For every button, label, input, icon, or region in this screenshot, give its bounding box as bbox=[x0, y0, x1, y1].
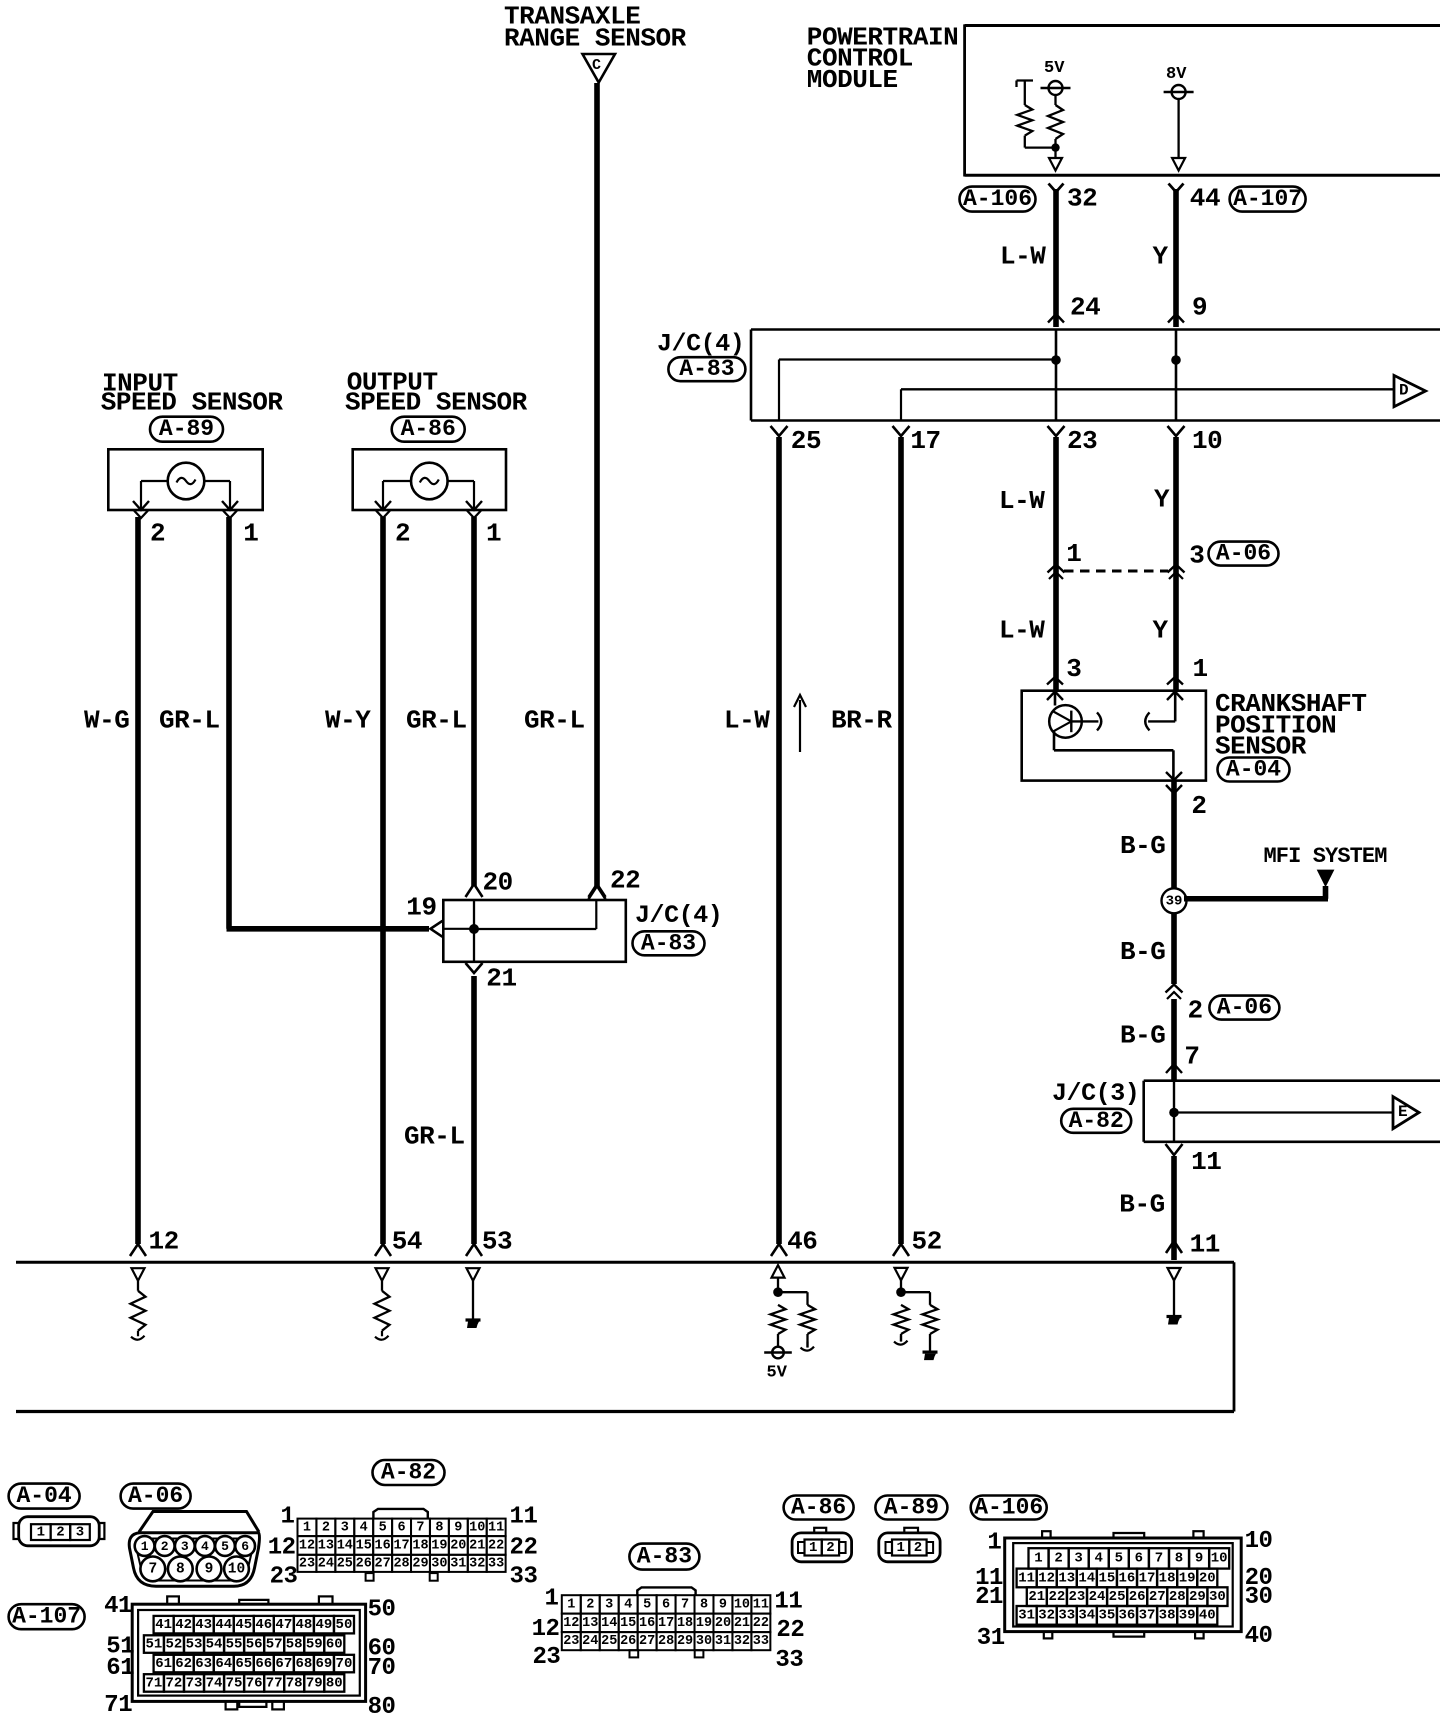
svg-text:16: 16 bbox=[639, 1616, 655, 1631]
svg-text:69: 69 bbox=[316, 1656, 333, 1672]
svg-text:5V: 5V bbox=[767, 1363, 788, 1382]
svg-text:4: 4 bbox=[201, 1539, 209, 1554]
svg-text:RANGE SENSOR: RANGE SENSOR bbox=[504, 24, 687, 54]
svg-text:25: 25 bbox=[601, 1634, 617, 1649]
svg-text:A-86: A-86 bbox=[401, 416, 456, 442]
svg-text:2: 2 bbox=[586, 1597, 594, 1612]
svg-text:Y: Y bbox=[1153, 616, 1169, 646]
svg-text:23: 23 bbox=[1069, 1589, 1086, 1605]
svg-text:1: 1 bbox=[303, 1520, 311, 1535]
svg-text:31: 31 bbox=[1018, 1608, 1035, 1624]
svg-text:3: 3 bbox=[341, 1520, 349, 1535]
svg-text:10: 10 bbox=[1192, 426, 1222, 456]
svg-text:B-G: B-G bbox=[1120, 831, 1165, 861]
svg-text:J/C(4): J/C(4) bbox=[635, 901, 722, 930]
svg-text:GR-L: GR-L bbox=[406, 706, 467, 736]
svg-text:77: 77 bbox=[266, 1675, 283, 1691]
svg-text:10: 10 bbox=[1245, 1528, 1273, 1555]
svg-text:30: 30 bbox=[1245, 1584, 1273, 1611]
svg-text:50: 50 bbox=[368, 1597, 396, 1624]
svg-text:20: 20 bbox=[483, 868, 513, 898]
svg-text:7: 7 bbox=[1184, 1041, 1199, 1071]
svg-text:28: 28 bbox=[1169, 1589, 1186, 1605]
svg-text:51: 51 bbox=[145, 1637, 162, 1653]
svg-text:23: 23 bbox=[1067, 426, 1097, 456]
svg-text:3: 3 bbox=[605, 1597, 613, 1612]
svg-text:54: 54 bbox=[206, 1637, 223, 1653]
svg-text:6: 6 bbox=[398, 1520, 406, 1535]
svg-text:33: 33 bbox=[753, 1634, 769, 1649]
svg-text:12: 12 bbox=[299, 1538, 315, 1553]
svg-text:20: 20 bbox=[715, 1616, 731, 1631]
svg-text:8: 8 bbox=[700, 1597, 708, 1612]
svg-text:18: 18 bbox=[412, 1538, 428, 1553]
svg-text:L-W: L-W bbox=[999, 616, 1045, 646]
svg-text:SPEED SENSOR: SPEED SENSOR bbox=[345, 387, 528, 417]
svg-text:46: 46 bbox=[787, 1227, 817, 1257]
svg-text:2: 2 bbox=[322, 1520, 330, 1535]
svg-text:80: 80 bbox=[326, 1675, 343, 1691]
svg-text:3: 3 bbox=[1066, 654, 1081, 684]
svg-text:53: 53 bbox=[482, 1227, 512, 1257]
svg-text:A-107: A-107 bbox=[1233, 186, 1302, 212]
svg-text:1: 1 bbox=[896, 1540, 904, 1556]
svg-text:14: 14 bbox=[1078, 1570, 1095, 1586]
svg-text:33: 33 bbox=[488, 1556, 504, 1571]
svg-text:33: 33 bbox=[775, 1647, 803, 1674]
svg-text:9: 9 bbox=[454, 1520, 462, 1535]
svg-text:9: 9 bbox=[1195, 1551, 1203, 1567]
svg-text:40: 40 bbox=[1199, 1608, 1216, 1624]
svg-text:2: 2 bbox=[56, 1524, 64, 1540]
svg-text:2: 2 bbox=[1188, 996, 1203, 1026]
svg-text:Y: Y bbox=[1153, 242, 1169, 272]
svg-text:67: 67 bbox=[275, 1656, 292, 1672]
svg-text:Y: Y bbox=[1154, 485, 1170, 515]
svg-text:5: 5 bbox=[643, 1597, 651, 1612]
svg-text:64: 64 bbox=[215, 1656, 232, 1672]
svg-text:28: 28 bbox=[393, 1556, 409, 1571]
svg-text:68: 68 bbox=[295, 1656, 312, 1672]
svg-text:L-W: L-W bbox=[1000, 242, 1046, 272]
svg-text:41: 41 bbox=[104, 1593, 132, 1620]
svg-text:40: 40 bbox=[1245, 1623, 1273, 1650]
svg-text:32: 32 bbox=[1038, 1608, 1055, 1624]
svg-text:C: C bbox=[592, 57, 601, 74]
svg-text:10: 10 bbox=[469, 1520, 485, 1535]
svg-text:16: 16 bbox=[1119, 1570, 1136, 1586]
svg-text:6: 6 bbox=[662, 1597, 670, 1612]
svg-text:18: 18 bbox=[1159, 1570, 1176, 1586]
svg-text:11: 11 bbox=[1191, 1147, 1221, 1177]
svg-text:29: 29 bbox=[677, 1634, 693, 1649]
svg-text:15: 15 bbox=[620, 1616, 636, 1631]
svg-text:24: 24 bbox=[1070, 293, 1100, 323]
svg-text:44: 44 bbox=[215, 1617, 232, 1633]
svg-text:1: 1 bbox=[486, 518, 501, 548]
svg-text:3: 3 bbox=[1189, 541, 1204, 571]
svg-text:47: 47 bbox=[275, 1617, 292, 1633]
svg-text:39: 39 bbox=[1179, 1608, 1196, 1624]
svg-text:A-89: A-89 bbox=[159, 416, 214, 442]
svg-text:62: 62 bbox=[175, 1656, 192, 1672]
svg-text:19: 19 bbox=[406, 893, 436, 923]
svg-text:19: 19 bbox=[696, 1616, 712, 1631]
svg-text:29: 29 bbox=[412, 1556, 428, 1571]
svg-text:A-83: A-83 bbox=[679, 356, 734, 382]
svg-text:8: 8 bbox=[435, 1520, 443, 1535]
svg-text:GR-L: GR-L bbox=[404, 1122, 465, 1152]
svg-text:52: 52 bbox=[166, 1637, 183, 1653]
svg-text:7: 7 bbox=[416, 1520, 424, 1535]
svg-text:A-82: A-82 bbox=[1069, 1108, 1124, 1134]
svg-text:36: 36 bbox=[1119, 1608, 1136, 1624]
svg-text:54: 54 bbox=[392, 1227, 422, 1257]
svg-text:12: 12 bbox=[1038, 1570, 1055, 1586]
svg-text:79: 79 bbox=[306, 1675, 323, 1691]
svg-text:1: 1 bbox=[1193, 654, 1208, 684]
svg-text:48: 48 bbox=[295, 1617, 312, 1633]
svg-text:1: 1 bbox=[1034, 1551, 1042, 1567]
svg-text:J/C(4): J/C(4) bbox=[657, 330, 744, 359]
svg-text:3: 3 bbox=[181, 1539, 189, 1554]
svg-text:7: 7 bbox=[1155, 1551, 1163, 1567]
svg-text:A-89: A-89 bbox=[884, 1495, 939, 1521]
svg-text:30: 30 bbox=[431, 1556, 447, 1571]
svg-text:24: 24 bbox=[582, 1634, 598, 1649]
svg-text:12: 12 bbox=[268, 1534, 296, 1561]
svg-text:12: 12 bbox=[149, 1227, 179, 1257]
svg-text:2: 2 bbox=[1191, 791, 1206, 821]
svg-text:63: 63 bbox=[195, 1656, 212, 1672]
svg-text:21: 21 bbox=[734, 1616, 750, 1631]
svg-text:41: 41 bbox=[155, 1617, 172, 1633]
svg-text:W-G: W-G bbox=[84, 706, 129, 736]
svg-text:5: 5 bbox=[1115, 1551, 1123, 1567]
svg-text:15: 15 bbox=[1098, 1570, 1115, 1586]
svg-text:71: 71 bbox=[104, 1692, 132, 1719]
svg-text:26: 26 bbox=[620, 1634, 636, 1649]
svg-text:B-G: B-G bbox=[1119, 1190, 1164, 1220]
svg-text:59: 59 bbox=[306, 1637, 323, 1653]
svg-text:23: 23 bbox=[299, 1556, 315, 1571]
svg-text:12: 12 bbox=[532, 1616, 560, 1643]
svg-text:22: 22 bbox=[776, 1617, 804, 1644]
svg-text:A-04: A-04 bbox=[16, 1483, 71, 1509]
svg-text:5V: 5V bbox=[1044, 59, 1065, 78]
svg-text:44: 44 bbox=[1190, 183, 1220, 213]
svg-text:11: 11 bbox=[488, 1520, 504, 1535]
svg-text:21: 21 bbox=[469, 1538, 485, 1553]
svg-text:1: 1 bbox=[545, 1586, 559, 1613]
svg-text:14: 14 bbox=[337, 1538, 353, 1553]
svg-text:32: 32 bbox=[734, 1634, 750, 1649]
svg-text:52: 52 bbox=[912, 1227, 942, 1257]
svg-text:22: 22 bbox=[610, 866, 640, 896]
svg-text:L-W: L-W bbox=[724, 706, 770, 736]
svg-text:20: 20 bbox=[450, 1538, 466, 1553]
svg-text:6: 6 bbox=[1135, 1551, 1143, 1567]
svg-text:42: 42 bbox=[175, 1617, 192, 1633]
svg-text:61: 61 bbox=[106, 1655, 134, 1682]
svg-text:4: 4 bbox=[624, 1597, 632, 1612]
svg-text:31: 31 bbox=[977, 1625, 1005, 1652]
svg-text:17: 17 bbox=[658, 1616, 674, 1631]
svg-text:20: 20 bbox=[1199, 1570, 1216, 1586]
svg-text:43: 43 bbox=[195, 1617, 212, 1633]
svg-text:7: 7 bbox=[681, 1597, 689, 1612]
svg-text:A-107: A-107 bbox=[12, 1604, 81, 1630]
svg-text:75: 75 bbox=[226, 1675, 243, 1691]
svg-text:22: 22 bbox=[1048, 1589, 1065, 1605]
svg-text:32: 32 bbox=[469, 1556, 485, 1571]
svg-text:GR-L: GR-L bbox=[159, 706, 220, 736]
svg-text:9: 9 bbox=[719, 1597, 727, 1612]
svg-text:A-06: A-06 bbox=[1216, 541, 1271, 567]
svg-text:B-G: B-G bbox=[1120, 1021, 1165, 1051]
svg-text:A-82: A-82 bbox=[381, 1460, 436, 1486]
svg-text:D: D bbox=[1399, 382, 1409, 400]
svg-text:13: 13 bbox=[318, 1538, 334, 1553]
svg-text:4: 4 bbox=[360, 1520, 368, 1535]
svg-text:72: 72 bbox=[166, 1675, 183, 1691]
svg-text:8V: 8V bbox=[1166, 65, 1187, 84]
svg-text:21: 21 bbox=[1028, 1589, 1045, 1605]
svg-text:53: 53 bbox=[186, 1637, 203, 1653]
svg-text:21: 21 bbox=[975, 1584, 1003, 1611]
svg-text:BR-R: BR-R bbox=[831, 706, 892, 736]
svg-text:25: 25 bbox=[337, 1556, 353, 1571]
svg-text:23: 23 bbox=[270, 1564, 298, 1591]
svg-text:L-W: L-W bbox=[999, 486, 1045, 516]
svg-text:33: 33 bbox=[510, 1564, 538, 1591]
svg-text:11: 11 bbox=[510, 1503, 538, 1530]
svg-text:B-G: B-G bbox=[1120, 937, 1165, 967]
svg-text:19: 19 bbox=[1179, 1570, 1196, 1586]
svg-text:1: 1 bbox=[243, 518, 258, 548]
svg-text:45: 45 bbox=[235, 1617, 252, 1633]
svg-text:A-86: A-86 bbox=[791, 1495, 846, 1521]
svg-text:10: 10 bbox=[228, 1561, 245, 1577]
svg-text:J/C(3): J/C(3) bbox=[1052, 1079, 1139, 1108]
svg-text:74: 74 bbox=[206, 1675, 223, 1691]
svg-text:56: 56 bbox=[246, 1637, 263, 1653]
svg-text:32: 32 bbox=[1067, 183, 1097, 213]
svg-text:12: 12 bbox=[563, 1616, 579, 1631]
svg-text:26: 26 bbox=[356, 1556, 372, 1571]
svg-text:37: 37 bbox=[1139, 1608, 1156, 1624]
svg-text:8: 8 bbox=[176, 1561, 185, 1577]
svg-text:13: 13 bbox=[582, 1616, 598, 1631]
svg-text:A-83: A-83 bbox=[637, 1544, 692, 1570]
svg-text:22: 22 bbox=[488, 1538, 504, 1553]
svg-text:46: 46 bbox=[255, 1617, 272, 1633]
svg-text:50: 50 bbox=[336, 1617, 353, 1633]
svg-text:34: 34 bbox=[1078, 1608, 1095, 1624]
svg-text:24: 24 bbox=[1089, 1589, 1106, 1605]
svg-text:73: 73 bbox=[186, 1675, 203, 1691]
svg-text:4: 4 bbox=[1095, 1551, 1103, 1567]
svg-text:1: 1 bbox=[280, 1503, 294, 1530]
svg-text:31: 31 bbox=[715, 1634, 731, 1649]
svg-text:78: 78 bbox=[286, 1675, 303, 1691]
svg-text:29: 29 bbox=[1189, 1589, 1206, 1605]
svg-text:SPEED SENSOR: SPEED SENSOR bbox=[101, 387, 284, 417]
svg-text:A-04: A-04 bbox=[1226, 757, 1281, 783]
svg-text:61: 61 bbox=[155, 1656, 172, 1672]
svg-text:2: 2 bbox=[1054, 1551, 1062, 1567]
svg-text:25: 25 bbox=[791, 426, 821, 456]
svg-text:21: 21 bbox=[486, 964, 516, 994]
svg-text:9: 9 bbox=[1192, 293, 1207, 323]
svg-text:GR-L: GR-L bbox=[524, 706, 585, 736]
svg-text:16: 16 bbox=[375, 1538, 391, 1553]
svg-text:27: 27 bbox=[1149, 1589, 1166, 1605]
svg-text:65: 65 bbox=[235, 1656, 252, 1672]
svg-text:5: 5 bbox=[221, 1539, 229, 1554]
svg-text:80: 80 bbox=[368, 1694, 396, 1720]
svg-text:2: 2 bbox=[826, 1540, 834, 1556]
svg-text:11: 11 bbox=[1190, 1229, 1220, 1259]
svg-text:18: 18 bbox=[677, 1616, 693, 1631]
svg-text:2: 2 bbox=[395, 518, 410, 548]
svg-text:6: 6 bbox=[241, 1539, 249, 1554]
svg-text:23: 23 bbox=[563, 1634, 579, 1649]
svg-text:1: 1 bbox=[567, 1597, 575, 1612]
svg-text:1: 1 bbox=[809, 1540, 817, 1556]
svg-text:24: 24 bbox=[318, 1556, 334, 1571]
svg-text:70: 70 bbox=[368, 1655, 396, 1682]
svg-text:10: 10 bbox=[734, 1597, 750, 1612]
svg-text:A-83: A-83 bbox=[641, 930, 696, 956]
svg-text:11: 11 bbox=[774, 1589, 802, 1616]
svg-text:1: 1 bbox=[37, 1524, 45, 1540]
svg-text:58: 58 bbox=[286, 1637, 303, 1653]
svg-text:76: 76 bbox=[246, 1675, 263, 1691]
svg-text:11: 11 bbox=[753, 1597, 769, 1612]
svg-text:57: 57 bbox=[266, 1637, 283, 1653]
svg-text:2: 2 bbox=[150, 518, 165, 548]
svg-text:39: 39 bbox=[1166, 893, 1183, 909]
svg-text:26: 26 bbox=[1129, 1589, 1146, 1605]
svg-text:8: 8 bbox=[1175, 1551, 1183, 1567]
svg-text:A-06: A-06 bbox=[128, 1483, 183, 1509]
svg-text:5: 5 bbox=[379, 1520, 387, 1535]
svg-text:15: 15 bbox=[356, 1538, 372, 1553]
svg-text:17: 17 bbox=[1139, 1570, 1156, 1586]
svg-text:1: 1 bbox=[1066, 539, 1081, 569]
svg-text:17: 17 bbox=[393, 1538, 409, 1553]
svg-text:25: 25 bbox=[1109, 1589, 1126, 1605]
svg-text:30: 30 bbox=[1209, 1589, 1226, 1605]
svg-text:71: 71 bbox=[145, 1675, 162, 1691]
svg-text:1: 1 bbox=[141, 1539, 149, 1554]
svg-text:2: 2 bbox=[161, 1539, 169, 1554]
svg-text:35: 35 bbox=[1098, 1608, 1115, 1624]
svg-text:A-106: A-106 bbox=[963, 186, 1032, 212]
svg-text:W-Y: W-Y bbox=[325, 706, 371, 736]
svg-text:A-06: A-06 bbox=[1217, 995, 1272, 1021]
svg-text:3: 3 bbox=[76, 1524, 84, 1540]
svg-text:38: 38 bbox=[1159, 1608, 1176, 1624]
svg-text:28: 28 bbox=[658, 1634, 674, 1649]
svg-text:49: 49 bbox=[316, 1617, 333, 1633]
svg-text:9: 9 bbox=[205, 1561, 214, 1577]
svg-text:MFI SYSTEM: MFI SYSTEM bbox=[1264, 844, 1388, 869]
svg-text:10: 10 bbox=[1211, 1551, 1228, 1567]
svg-text:13: 13 bbox=[1058, 1570, 1075, 1586]
svg-text:22: 22 bbox=[510, 1534, 538, 1561]
svg-text:31: 31 bbox=[450, 1556, 466, 1571]
svg-text:70: 70 bbox=[336, 1656, 353, 1672]
svg-text:2: 2 bbox=[914, 1540, 922, 1556]
svg-text:1: 1 bbox=[987, 1530, 1001, 1557]
svg-text:19: 19 bbox=[431, 1538, 447, 1553]
svg-text:MODULE: MODULE bbox=[807, 65, 898, 95]
svg-text:3: 3 bbox=[1074, 1551, 1082, 1567]
svg-text:27: 27 bbox=[375, 1556, 391, 1571]
svg-text:11: 11 bbox=[1018, 1570, 1035, 1586]
svg-text:23: 23 bbox=[532, 1644, 560, 1671]
svg-text:E: E bbox=[1398, 1103, 1408, 1121]
svg-text:60: 60 bbox=[326, 1637, 343, 1653]
svg-text:A-106: A-106 bbox=[974, 1495, 1043, 1521]
svg-text:33: 33 bbox=[1058, 1608, 1075, 1624]
svg-text:30: 30 bbox=[696, 1634, 712, 1649]
svg-text:27: 27 bbox=[639, 1634, 655, 1649]
svg-text:17: 17 bbox=[910, 426, 940, 456]
svg-text:66: 66 bbox=[255, 1656, 272, 1672]
svg-text:14: 14 bbox=[601, 1616, 617, 1631]
svg-text:55: 55 bbox=[226, 1637, 243, 1653]
svg-text:22: 22 bbox=[753, 1616, 769, 1631]
svg-text:7: 7 bbox=[148, 1561, 157, 1577]
